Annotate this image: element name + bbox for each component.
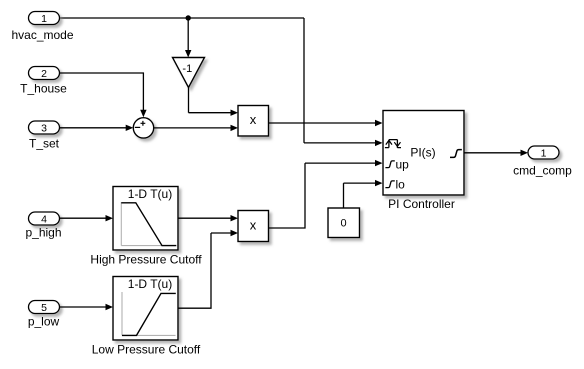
inport 2 T_house: [29, 67, 60, 80]
wire branch to gain: [185, 18, 191, 58]
svg-text:5: 5: [41, 302, 47, 314]
node label T_set: [29, 137, 60, 151]
node label T_house: [20, 82, 67, 96]
sum plus sign: [141, 121, 146, 126]
svg-text:Low Pressure Cutoff: Low Pressure Cutoff: [92, 343, 201, 357]
svg-text:-1: -1: [182, 63, 192, 75]
pin icon saturation up: [385, 158, 409, 172]
svg-text:2: 2: [41, 68, 47, 80]
outport 1 cmd_comp: [528, 146, 559, 159]
svg-text:hvac_mode: hvac_mode: [11, 28, 73, 42]
svg-text:High Pressure Cutoff: High Pressure Cutoff: [90, 253, 202, 267]
lookup axes (low): [122, 292, 176, 335]
lookup curve (high): [121, 203, 176, 246]
wire T_house to sum: [60, 73, 147, 117]
pin icon external reset pulse: [385, 140, 401, 148]
wire sum output to product1 in2: [154, 125, 238, 131]
lookup title 1-D T(u) low: [128, 277, 172, 291]
svg-text:3: 3: [41, 123, 47, 135]
sum minus sign: [135, 126, 140, 128]
wire constant to PI in4: [344, 180, 383, 208]
node label p_low: [28, 315, 60, 329]
svg-text:PI Controller: PI Controller: [388, 197, 455, 211]
wire low lookup to product2 in2: [178, 230, 238, 308]
block label High Pressure Cutoff: [90, 253, 202, 267]
wire T_set to sum: [60, 125, 134, 131]
wire p_high to high lookup: [60, 215, 114, 221]
node label hvac_mode: [11, 28, 73, 42]
svg-text:1-D T(u): 1-D T(u): [128, 277, 172, 291]
wire product2 output to PI in3: [269, 160, 383, 228]
product P1: [238, 106, 269, 137]
inport 5 p_low: [29, 301, 60, 314]
svg-text:T_house: T_house: [20, 82, 67, 96]
inport 1 hvac_mode: [29, 12, 60, 25]
gain block -1: [173, 58, 205, 88]
block label Low Pressure Cutoff: [92, 343, 201, 357]
lookup table High Pressure Cutoff: [113, 187, 178, 251]
inport 4 p_high: [29, 212, 60, 225]
pin number 1 out: [541, 148, 547, 160]
op-amp U1 PI Controller block: [383, 111, 464, 196]
pin icon saturation output: [450, 150, 462, 158]
svg-text:1: 1: [41, 13, 47, 25]
block label PI Controller: [388, 197, 455, 211]
node junction on hvac_mode wire: [186, 15, 191, 20]
svg-text:T_set: T_set: [29, 137, 60, 151]
pin number 2: [41, 68, 47, 80]
PI(s) label: [410, 145, 435, 159]
pin number 4: [41, 214, 47, 226]
product P1 label x: [250, 112, 257, 127]
svg-text:1-D T(u): 1-D T(u): [128, 187, 172, 201]
pin number 1: [41, 13, 47, 25]
svg-text:cmd_comp: cmd_comp: [513, 164, 572, 178]
svg-text:p_high: p_high: [25, 226, 61, 240]
node label cmd_comp: [513, 164, 572, 178]
pin number 3: [41, 123, 47, 135]
svg-text:p_low: p_low: [28, 315, 60, 329]
value label -1: [182, 63, 192, 75]
wire PI output to outport: [464, 150, 528, 156]
wire hvac_mode down to PI in2: [304, 18, 383, 146]
inport 3 T_set: [29, 121, 60, 134]
svg-text:x: x: [250, 218, 257, 233]
product P2: [238, 211, 269, 242]
svg-text:1: 1: [541, 148, 547, 160]
lookup curve (low): [122, 293, 176, 335]
wire product1 output to PI in1: [269, 120, 383, 126]
pin number 5: [41, 302, 47, 314]
node label p_high: [25, 226, 61, 240]
constant value 0: [340, 218, 346, 230]
wire hvac_mode trunk: [60, 17, 305, 19]
pin icon saturation lo: [385, 178, 405, 192]
svg-text:lo: lo: [396, 178, 406, 192]
wire gain output to product1 in1: [189, 88, 239, 116]
svg-text:up: up: [396, 158, 410, 172]
lookup table Low Pressure Cutoff: [113, 277, 178, 341]
sum block: [133, 118, 153, 138]
wire high lookup to product2 in1: [178, 215, 238, 221]
svg-text:4: 4: [41, 214, 47, 226]
constant 0: [328, 208, 360, 238]
svg-text:0: 0: [340, 218, 346, 230]
svg-text:PI(s): PI(s): [410, 145, 435, 159]
product P2 label x: [250, 218, 257, 233]
lookup title 1-D T(u): [128, 187, 172, 201]
svg-text:x: x: [250, 112, 257, 127]
lookup axes (high): [121, 202, 175, 246]
wire p_low to low lookup: [60, 304, 114, 310]
